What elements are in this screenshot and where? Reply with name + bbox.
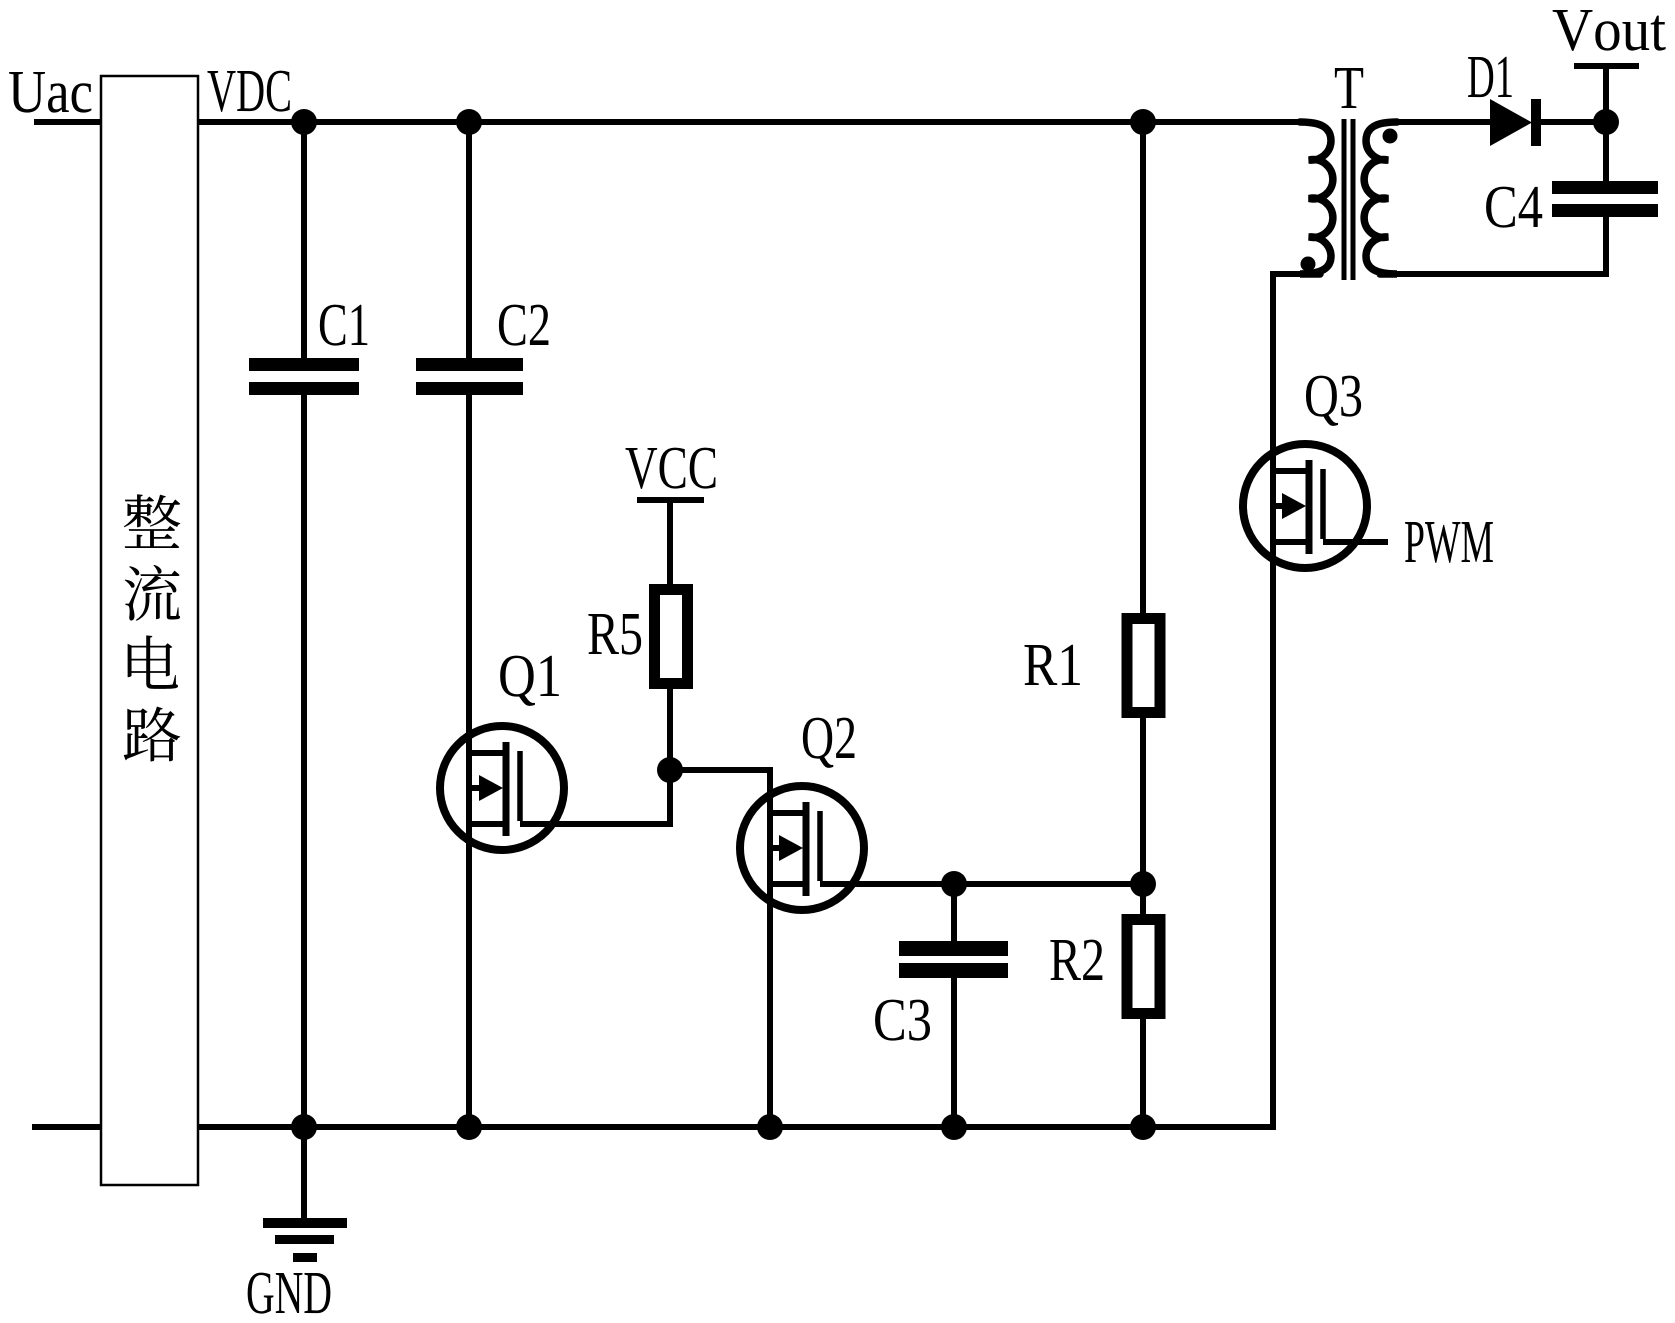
label D1 <box>1468 57 1512 97</box>
label C2 <box>499 305 549 346</box>
wire primary bottom and Q3 column <box>1273 274 1320 1127</box>
label Q3 <box>1306 376 1361 426</box>
node VDC-C2 <box>456 109 482 135</box>
label Q2 <box>803 718 855 768</box>
node R1-R2 <box>1130 871 1156 897</box>
node rail-C1-GND <box>291 1114 317 1140</box>
rectifier label char 路 <box>124 706 181 761</box>
rectifier box 整流电路 <box>101 76 198 1185</box>
wire Q3 gate to PWM <box>1352 539 1388 545</box>
transistor Q1 <box>440 726 564 850</box>
node Vout-D1-C4 <box>1593 109 1619 135</box>
node VDC-R1 <box>1130 109 1156 135</box>
label Uac <box>9 72 91 113</box>
wire D1 cathode to Vout node <box>1540 119 1606 125</box>
node VDC-C1 <box>291 109 317 135</box>
capacitor C1 <box>249 358 359 395</box>
label C3 <box>875 1000 930 1041</box>
wire C2 column bottom <box>466 393 472 1127</box>
power VCC terminal <box>637 497 704 503</box>
label GND <box>248 1273 331 1314</box>
wire C1 column top <box>301 122 307 360</box>
transformer secondary polarity dot <box>1383 129 1398 144</box>
wire C2 column top <box>466 122 472 360</box>
wire node down then left to Q1 gate <box>563 770 670 824</box>
wire bottom rail left stub <box>32 1124 101 1130</box>
rectifier label char 流 <box>125 565 181 621</box>
wire bottom rail <box>198 1124 1276 1130</box>
wire D1 anode <box>1388 119 1490 125</box>
capacitor C3 <box>899 941 1008 978</box>
node rail-C2 <box>456 1114 482 1140</box>
wire R5 bottom <box>667 686 673 770</box>
transistor Q2 <box>740 786 864 910</box>
label VDC <box>207 71 289 112</box>
wire Q2 gate to R1R2 node <box>862 881 1143 887</box>
label Vout <box>1553 10 1666 51</box>
transistor Q3 <box>1243 444 1367 568</box>
resistor R1 <box>1127 619 1160 713</box>
node rail-Q2 <box>757 1114 783 1140</box>
label PWM <box>1405 522 1493 563</box>
wire Uac input <box>34 119 101 125</box>
wire C3 top stem <box>951 884 957 943</box>
wire Vout node to C4 <box>1603 122 1609 183</box>
wire node to Q2 and down <box>670 770 770 1127</box>
diode D1 <box>1490 99 1541 146</box>
resistor R5 <box>655 590 688 684</box>
rectifier label char 电 <box>128 635 178 689</box>
label C4 <box>1486 187 1542 228</box>
wire R1 column top <box>1140 122 1146 615</box>
label Q1 <box>500 656 559 706</box>
label C1 <box>320 305 367 346</box>
capacitor C2 <box>416 358 523 395</box>
wire Vout stem <box>1603 66 1609 122</box>
label VCC <box>626 448 716 489</box>
node rail-R2 <box>1130 1114 1156 1140</box>
label R2 <box>1050 940 1102 980</box>
rectifier label char 整 <box>124 494 180 548</box>
transformer primary polarity dot <box>1301 257 1316 272</box>
resistor R2 <box>1127 920 1160 1014</box>
node rail-C3 <box>941 1114 967 1140</box>
wire C3 bottom stem <box>951 975 957 1127</box>
label R5 <box>588 614 641 655</box>
ground GND <box>263 1127 347 1262</box>
wire VCC stem <box>667 500 673 586</box>
wire node to R2 <box>1140 885 1146 917</box>
transformer T primary winding <box>1300 122 1333 274</box>
power Vout terminal <box>1574 63 1639 69</box>
wire R1 to node <box>1140 716 1146 885</box>
capacitor C4 <box>1552 181 1658 217</box>
transformer T core <box>1342 119 1347 280</box>
label R1 <box>1024 645 1079 685</box>
node R5-Q1gate-Q2 <box>657 757 683 783</box>
node Q2gate-C3 <box>941 871 967 897</box>
wire C1 column bottom <box>301 393 307 1127</box>
wire R2 to rail <box>1140 1017 1146 1127</box>
label T <box>1335 68 1363 108</box>
wire VDC top rail <box>198 119 1312 125</box>
transformer T secondary winding <box>1364 122 1397 274</box>
wire C4 bottom and secondary return <box>1380 215 1606 274</box>
